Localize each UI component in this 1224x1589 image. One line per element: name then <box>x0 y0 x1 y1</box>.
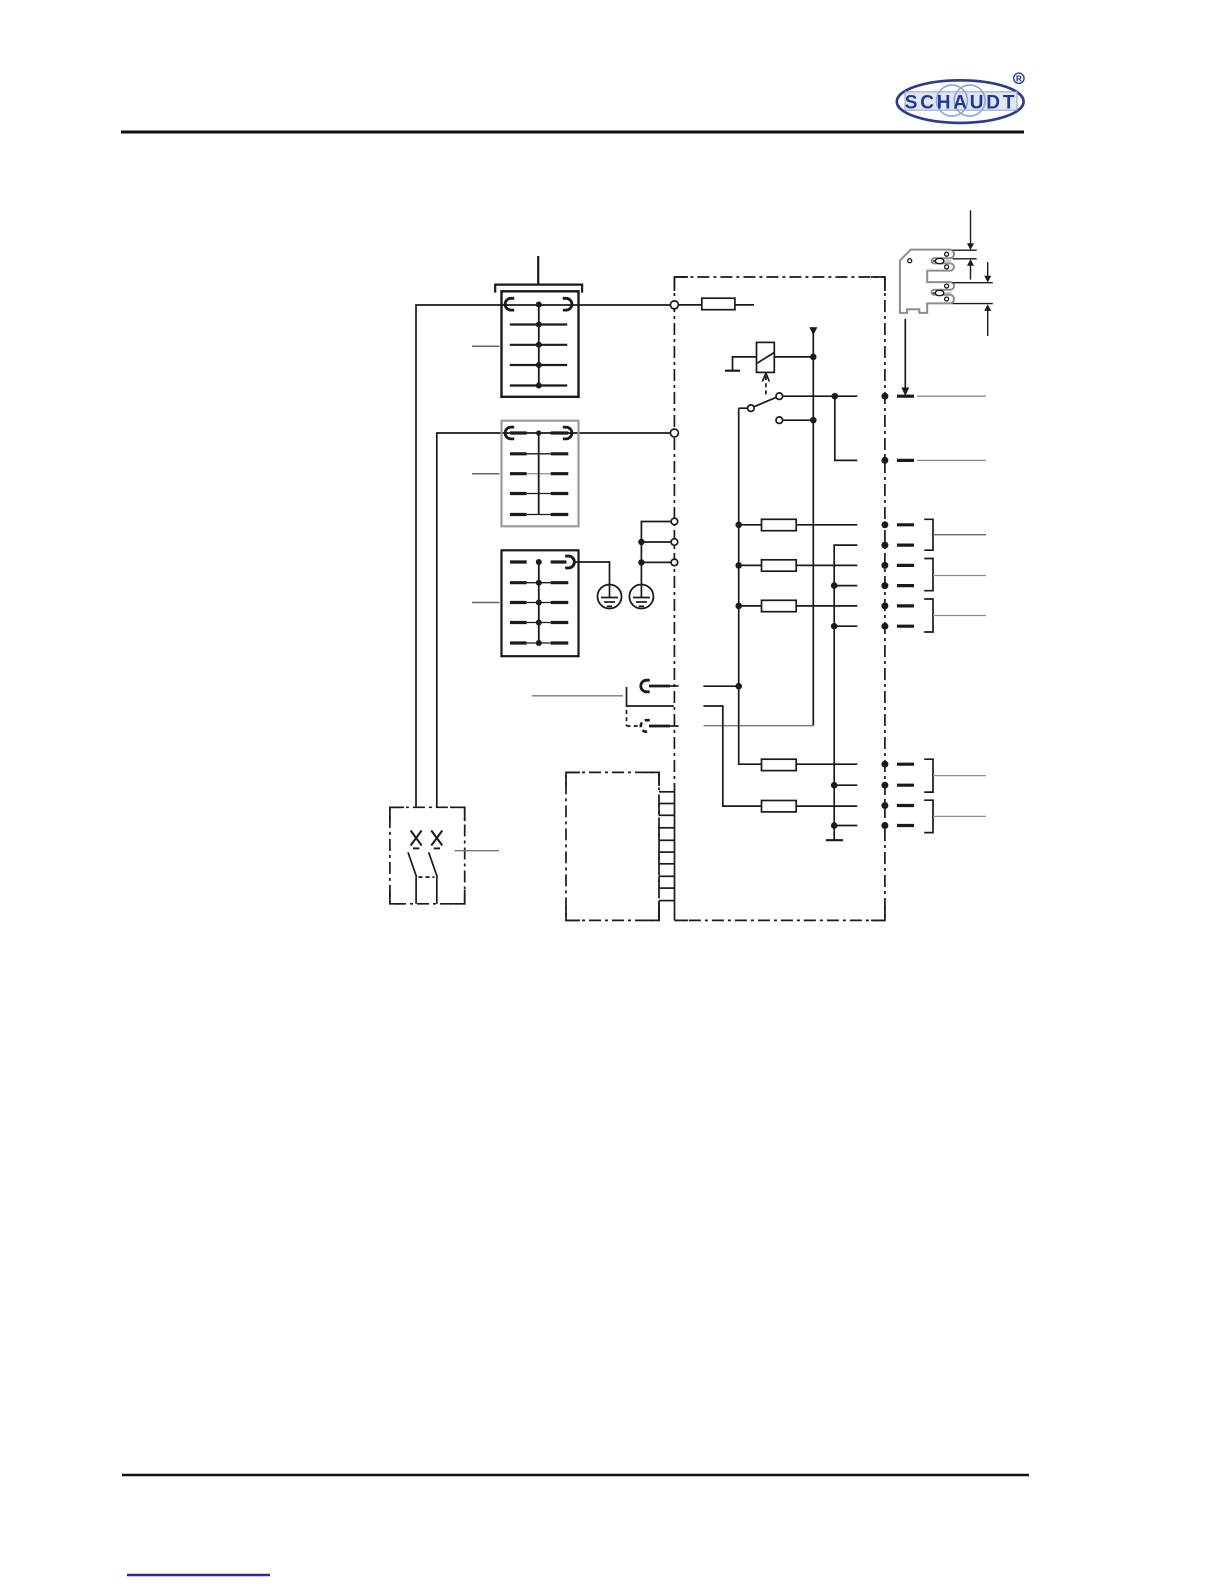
fuse F1 main <box>678 298 754 310</box>
terminal circles on unit left edge <box>670 301 678 566</box>
logo SCHAUDT <box>897 73 1024 123</box>
fuse F6 <box>762 801 858 812</box>
breaker pole 1 <box>408 831 422 904</box>
connector plug K1 leader <box>532 695 623 697</box>
dimension lines lower <box>953 262 993 336</box>
mains connector body <box>900 250 954 313</box>
breaker box (dash-dot) <box>390 807 465 904</box>
breaker link (dashed) <box>419 876 435 878</box>
wire B3 to ground G1 <box>575 562 610 585</box>
connector plug K1 clamp <box>627 680 679 706</box>
bracket P5 <box>924 800 986 832</box>
wire to output 2 <box>835 396 858 460</box>
distribution bus <box>735 408 761 764</box>
wire K1 to bus <box>703 685 738 687</box>
mains lead arrow <box>901 319 909 396</box>
bracket P1 <box>924 519 986 550</box>
D+ arrow line <box>704 327 818 726</box>
box corner reinforcements <box>390 277 885 920</box>
leader B3 <box>472 602 500 604</box>
connector plug K2 (dashed option) <box>627 710 679 732</box>
svg-text:SCHAUDT: SCHAUDT <box>905 92 1018 113</box>
minus bus <box>826 545 857 840</box>
fuse F4 <box>739 600 858 611</box>
switch S1 <box>739 393 858 424</box>
fuse F5 <box>762 759 858 770</box>
footer rule <box>122 1474 1029 1477</box>
relay output wire <box>774 354 816 361</box>
ground bus to terminals <box>638 522 671 585</box>
output bold ticks <box>897 396 914 825</box>
wire battery1 to unit <box>416 305 671 807</box>
mains connector key pins <box>933 258 952 295</box>
controller box (dash-dot) <box>566 772 659 920</box>
bracket P4 <box>924 759 986 792</box>
bracket P3 <box>924 599 986 632</box>
mains connector pin holes <box>908 252 949 301</box>
output lines KL30 KL15 <box>917 396 986 460</box>
leader B1 <box>472 345 500 347</box>
unit boundary (dash-dot box) <box>674 277 885 920</box>
footer link underline <box>127 1574 270 1576</box>
fuse F2 <box>739 519 858 530</box>
leader B2 <box>472 473 500 475</box>
breaker pole 2 <box>429 831 443 904</box>
battery B1 <box>502 291 579 397</box>
controller pin ticks <box>659 792 675 921</box>
dimension lines top <box>953 210 977 279</box>
ground G1 <box>598 585 622 609</box>
wire K1b to fuse F6 <box>703 706 761 806</box>
switch actuator dashed arrow <box>762 373 769 396</box>
header rule <box>121 131 1024 134</box>
bracket P2 <box>924 559 986 591</box>
terminal dots on unit right edge <box>881 393 888 829</box>
battery B3 <box>502 550 579 656</box>
battery B2 <box>502 421 579 527</box>
unit connector strip edge <box>674 786 676 920</box>
relay K coil <box>757 342 775 372</box>
relay ground <box>725 357 757 371</box>
svg-text:R: R <box>1016 74 1022 84</box>
wire battery2 to unit <box>437 433 671 807</box>
fuse F3 <box>739 560 858 571</box>
battery B1 bracket <box>495 256 582 293</box>
ground G2 <box>629 585 653 609</box>
breaker leader <box>455 850 499 852</box>
